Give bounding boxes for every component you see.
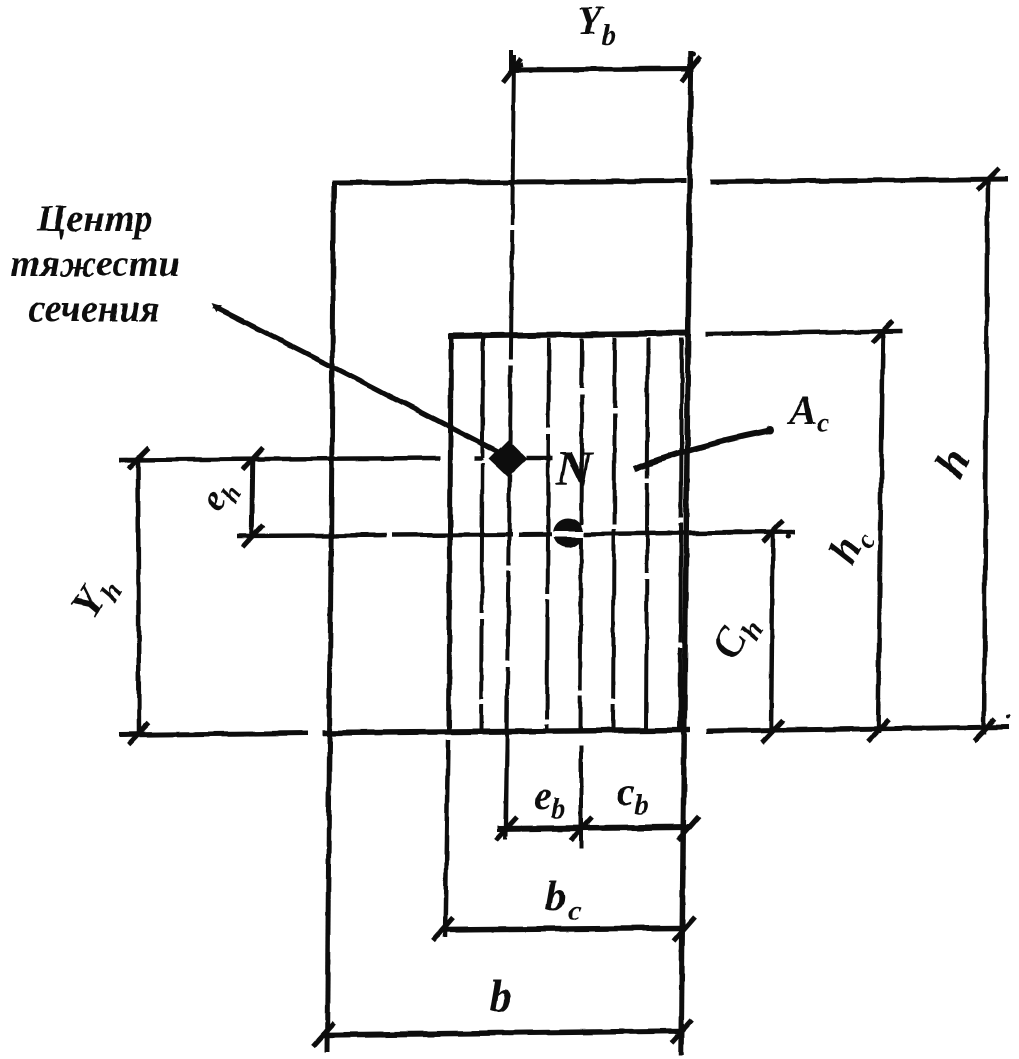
A_c leader end blob [766, 426, 774, 434]
svg-text:Центр: Центр [36, 198, 153, 240]
outer rect top edge extension to h dimension [710, 179, 1008, 182]
leader start blob [211, 303, 222, 313]
dimension e_h line [252, 459, 253, 537]
C_h bottom arrow tick [762, 720, 783, 742]
svg-text:Yh: Yh [63, 567, 130, 629]
force application point (dot with white equator) [553, 518, 583, 548]
dimension b line [322, 1031, 681, 1035]
h top arrow tick [977, 168, 999, 190]
dimension e_b / c_b line [497, 827, 689, 829]
h_c top arrow tick [872, 321, 893, 343]
hatch line 2 (centroid axis) [506, 55, 514, 840]
force axis extension below [579, 745, 583, 848]
e_h bottom arrow tick [243, 525, 263, 547]
leader line from A_c label into hatched area [634, 430, 772, 469]
hatch line 7 [680, 338, 682, 729]
h_c bottom arrow tick [868, 719, 889, 741]
centroid horizontal center line [119, 458, 440, 460]
dimension Y_b line [509, 69, 694, 70]
hatch line 5 [613, 338, 615, 729]
scan speck on force line [787, 534, 792, 539]
e_b left arrow tick [496, 817, 517, 840]
Y_h bottom arrow tick [128, 723, 149, 745]
dimension b_c line [442, 928, 684, 930]
scan speck right of h bottom [1006, 715, 1010, 719]
svg-text:cb: cb [617, 769, 649, 821]
svg-text:hc: hc [820, 518, 883, 575]
bottom edge right extension to h [706, 727, 1009, 731]
svg-text:сечения: сечения [28, 288, 159, 330]
dimension h_c line [878, 332, 883, 733]
Y_b left arrow tick [503, 59, 521, 82]
outer section rectangle left edge (b side) [327, 182, 334, 1052]
b right arrow tick [671, 1020, 692, 1043]
outer section rectangle top edge [332, 181, 686, 183]
svg-text:Ch: Ch [703, 606, 770, 670]
force center line right part [584, 532, 795, 534]
outer section rectangle right edge [681, 51, 691, 1055]
centroid axis lower extension [505, 750, 507, 840]
c_b right arrow tick [678, 816, 699, 840]
svg-text:тяжести: тяжести [10, 243, 179, 285]
centroid center line dot [474, 456, 483, 461]
svg-text:eb: eb [534, 773, 566, 825]
centroid marker (diamond) [489, 440, 527, 477]
h bottom arrow tick [974, 719, 995, 741]
outer section rectangle bottom edge [322, 730, 690, 733]
svg-text:h: h [925, 440, 980, 485]
inner rect left edge extension down to b_c [445, 740, 448, 938]
svg-text:Ac: Ac [786, 388, 830, 439]
Y_b right arrow tick [681, 56, 701, 82]
b_c right arrow tick [674, 917, 695, 941]
inner compressed-zone rectangle top edge [448, 333, 691, 336]
Y_h top arrow tick [128, 448, 149, 469]
dimension h line [984, 177, 988, 734]
C_h top arrow tick [763, 520, 784, 542]
hatch line 3 [547, 338, 549, 729]
hatch line 4 (force axis) [580, 338, 582, 729]
b left arrow tick [313, 1023, 334, 1046]
e_b / c_b middle arrow tick [571, 817, 592, 840]
centroid center line right stub [526, 456, 553, 461]
svg-text:eh: eh [192, 470, 248, 521]
leader line from centroid caption to centroid [213, 306, 500, 453]
bottom edge left extension to Yh [119, 733, 308, 735]
dimension Y_h line [138, 459, 139, 736]
force horizontal center line [237, 534, 553, 536]
Y_b left end L-mark [511, 50, 523, 69]
svg-text:b: b [490, 972, 512, 1021]
b_c left arrow tick [433, 918, 453, 941]
h_c top extension line [705, 331, 903, 334]
e_h top arrow tick [243, 448, 263, 470]
svg-text:bc: bc [545, 874, 581, 927]
svg-text:N: N [555, 440, 594, 496]
svg-text:Yb: Yb [577, 0, 615, 51]
hatch line 1 [481, 338, 483, 729]
dimension C_h line [771, 531, 773, 734]
scan speck near Y_b right tick [692, 52, 697, 57]
inner rectangle left edge [449, 335, 451, 731]
hatch line 6 [646, 338, 648, 729]
